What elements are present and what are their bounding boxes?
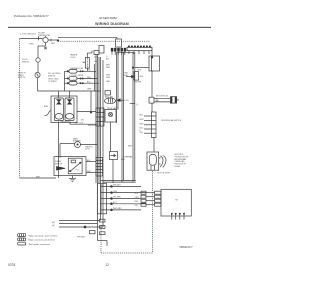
svg-text:Edge connector pitch 5mm;: Edge connector pitch 5mm; — [29, 239, 56, 242]
svg-text:MOTOR PLUG: MOTOR PLUG — [156, 96, 169, 98]
svg-text:1-2 HOT AIR DUCT: 1-2 HOT AIR DUCT — [20, 32, 37, 35]
svg-text:(W): (W) — [52, 222, 55, 224]
svg-text:0378: 0378 — [8, 263, 15, 267]
svg-text:ORG: ORG — [135, 197, 140, 199]
svg-text:WHT: WHT — [140, 119, 145, 121]
svg-text:WIRING DIAGRAM: WIRING DIAGRAM — [95, 22, 129, 26]
svg-text:RED: RED — [140, 123, 144, 125]
svg-text:WHT-RED: WHT-RED — [113, 208, 122, 210]
svg-text:CAB: CAB — [106, 80, 110, 83]
svg-text:BRN: BRN — [88, 89, 92, 91]
svg-text:HI-LIMIT: HI-LIMIT — [70, 80, 78, 82]
svg-text:TO START: TO START — [48, 80, 58, 83]
svg-text:YEL: YEL — [140, 132, 143, 134]
svg-text:WHT: WHT — [138, 70, 142, 72]
svg-text:BLK: BLK — [156, 99, 160, 101]
svg-text:BURNER: BURNER — [73, 140, 81, 142]
svg-text:THERMOSTAT: THERMOSTAT — [38, 34, 51, 37]
svg-text:SWITCH: SWITCH — [48, 75, 56, 77]
svg-text:Edge connector: pitch 3.5mm;: Edge connector: pitch 3.5mm; — [29, 234, 58, 237]
svg-text:SWITCH: SWITCH — [22, 61, 30, 63]
svg-text:BLU: BLU — [135, 193, 139, 195]
svg-text:THERMAL FUSE: THERMAL FUSE — [70, 67, 85, 70]
svg-text:SEC COIL: SEC COIL — [75, 123, 83, 125]
svg-text:RESET: RESET — [175, 166, 182, 168]
svg-text:WHT: WHT — [51, 43, 56, 45]
svg-text:MOTOR 1/4HP: MOTOR 1/4HP — [158, 172, 171, 174]
svg-text:RED: RED — [121, 159, 125, 161]
svg-text:SWITCH: SWITCH — [55, 163, 63, 165]
svg-text:ORG: ORG — [94, 57, 99, 59]
svg-text:BLK: BLK — [126, 100, 130, 102]
svg-text:YEL: YEL — [94, 61, 97, 63]
svg-text:TM: TM — [175, 200, 178, 202]
svg-text:1: 1 — [102, 185, 103, 187]
svg-text:SENSOR: SENSOR — [88, 125, 96, 127]
svg-text:BLK: BLK — [140, 115, 144, 117]
svg-text:WHT: WHT — [106, 67, 111, 69]
svg-text:COILS: COILS — [70, 57, 76, 59]
svg-text:BLU: BLU — [140, 128, 144, 130]
svg-text:RED-BLK: RED-BLK — [113, 185, 122, 187]
svg-text:GND: GND — [106, 77, 111, 79]
svg-text:SWITCH: SWITCH — [18, 77, 26, 79]
svg-text:DRUM LAMP: DRUM LAMP — [107, 107, 119, 110]
svg-text:BRN: BRN — [44, 106, 48, 108]
svg-text:YEL: YEL — [135, 205, 138, 207]
svg-text:GROUND: GROUND — [77, 237, 86, 239]
svg-text:GFSE01TRB0: GFSE01TRB0 — [99, 16, 117, 20]
svg-text:RED: RED — [135, 201, 139, 203]
svg-text:VIO: VIO — [81, 120, 85, 122]
svg-text:CENTRIFUGAL SWITCH: CENTRIFUGAL SWITCH — [161, 119, 182, 122]
svg-text:WHT: WHT — [128, 146, 133, 148]
svg-text:YEL-RED: YEL-RED — [113, 197, 121, 199]
svg-text:BUZZER: BUZZER — [134, 82, 142, 84]
svg-text:BLK: BLK — [140, 76, 144, 78]
svg-text:N.C.: N.C. — [77, 170, 81, 172]
svg-text:5995421177: 5995421177 — [180, 246, 194, 249]
svg-text:BELT SW: BELT SW — [105, 96, 113, 98]
svg-text:THERMAL: THERMAL — [124, 156, 133, 159]
svg-text:Publication No. 5995421177: Publication No. 5995421177 — [14, 14, 49, 18]
svg-text:BRN: BRN — [30, 43, 34, 45]
svg-text:(+): (+) — [136, 104, 139, 106]
svg-text:12: 12 — [106, 263, 110, 267]
svg-text:CYCLING TSTAT: CYCLING TSTAT — [70, 74, 85, 77]
svg-text:2-PIN: 2-PIN — [85, 149, 90, 151]
svg-text:Tab header connector.: Tab header connector. — [29, 243, 51, 246]
svg-text:GND: GND — [124, 75, 129, 77]
svg-text:BLK: BLK — [106, 58, 110, 60]
svg-text:(G): (G) — [52, 225, 55, 227]
svg-text:ORG: ORG — [113, 191, 118, 193]
svg-text:WHT: WHT — [156, 101, 160, 103]
